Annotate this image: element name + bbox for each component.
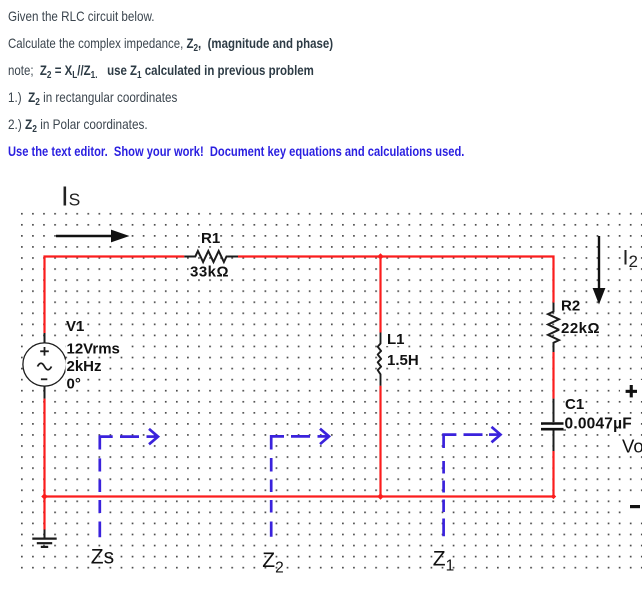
impedance arrow Z1 (444, 427, 501, 536)
svg-text:Vo: Vo (622, 436, 642, 457)
wire: left branch V1 to bottom junction (43, 399, 45, 497)
wire: left branch top (V1 to top-left corner to R1) (45, 257, 185, 334)
R2 value 22kΩ (560, 320, 605, 337)
source V1 (23, 333, 66, 399)
ground (32, 530, 56, 547)
output minus sign (624, 498, 642, 514)
svg-text:2kHz: 2kHz (67, 358, 102, 375)
L1 value 1.5H (386, 352, 422, 369)
current arrow Is (56, 230, 130, 243)
wire: middle branch bottom (L1 to bottom wire) (379, 386, 381, 497)
svg-text:Zs: Zs (91, 546, 114, 569)
current arrow I2 (593, 236, 606, 305)
label L1 (386, 331, 406, 348)
wire: bottom wire (45, 495, 554, 497)
wire: right branch between R2 and C1 (552, 352, 554, 399)
junction at top of L1 branch (377, 253, 384, 260)
svg-text:V1: V1 (66, 318, 84, 335)
output label Vo (618, 436, 642, 457)
resistor R1 (184, 251, 238, 262)
svg-text:L1: L1 (387, 331, 405, 348)
V1 value 0 deg (66, 375, 84, 392)
R1 value 33kΩ (189, 264, 234, 281)
wire: top right segment (R1 to top-right corner into R2) (238, 257, 554, 303)
wire: middle branch top (top wire down to L1) (379, 257, 381, 333)
junction at bottom of L1 branch (377, 493, 384, 500)
svg-text:0°: 0° (67, 375, 81, 392)
svg-text:0.0047µF: 0.0047µF (565, 415, 632, 432)
svg-text:1.5H: 1.5H (387, 352, 419, 369)
inductor L1 (378, 333, 381, 386)
label C1 (565, 396, 586, 413)
svg-text:C1: C1 (565, 396, 584, 413)
label R2 (560, 297, 581, 314)
junction at bottom of left branch (41, 493, 48, 500)
svg-text:R2: R2 (561, 297, 580, 314)
svg-text:R1: R1 (201, 230, 220, 247)
svg-text:33kΩ: 33kΩ (190, 264, 229, 281)
svg-text:22kΩ: 22kΩ (561, 320, 600, 337)
output plus sign (620, 380, 642, 401)
label R1 (200, 230, 221, 247)
impedance arrow Zs (100, 429, 158, 537)
wire: bottom junction down to ground (43, 497, 45, 530)
svg-text:IS: IS (61, 181, 80, 212)
capacitor C1 (541, 399, 566, 451)
junction at bottom-right corner (551, 494, 556, 499)
V1 value 2kHz (66, 358, 104, 375)
impedance arrow Z2 (271, 429, 329, 537)
resistor R2 (548, 303, 559, 352)
V1 value 12Vrms (66, 341, 125, 358)
svg-text:12Vrms: 12Vrms (67, 341, 120, 358)
C1 value 0.0047uF (564, 415, 634, 432)
wire: right branch below C1 to bottom-right corner (552, 451, 554, 497)
